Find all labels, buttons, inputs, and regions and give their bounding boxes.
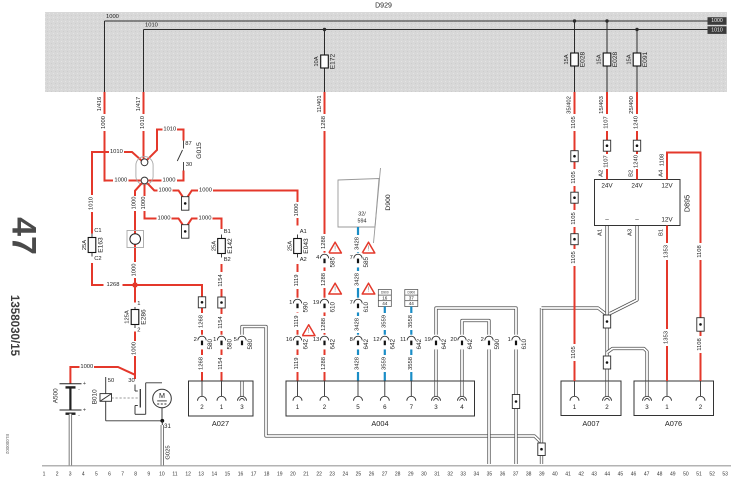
svg-text:C1: C1 — [94, 228, 101, 234]
svg-text:18: 18 — [264, 471, 270, 477]
connector 1108 — [697, 318, 704, 332]
wire branch to A076 pin3 — [607, 349, 647, 382]
fuse E043 25A — [287, 229, 310, 263]
svg-text:13: 13 — [198, 471, 204, 477]
svg-text:16: 16 — [382, 296, 388, 301]
pin A004-7 — [407, 381, 416, 411]
relay contact 30 — [128, 375, 162, 415]
svg-text:3428: 3428 — [355, 273, 361, 286]
svg-text:B010: B010 — [92, 389, 99, 404]
wire 1000 to fuse E142 — [141, 185, 222, 230]
wire drop to fuse E028b — [605, 19, 608, 92]
svg-text:1000: 1000 — [163, 177, 176, 183]
battery ground wire — [69, 414, 72, 466]
inline connector 580 pin5 — [234, 335, 254, 350]
svg-text:D900: D900 — [381, 290, 389, 294]
svg-text:+: + — [83, 407, 86, 413]
svg-text:D900: D900 — [385, 194, 392, 210]
svg-text:3428: 3428 — [355, 237, 361, 250]
svg-text:7: 7 — [350, 255, 353, 261]
wire 1010 drop 1/417 — [136, 92, 146, 159]
svg-text:53: 53 — [722, 471, 728, 477]
svg-text:610: 610 — [329, 301, 336, 312]
svg-text:44: 44 — [605, 471, 611, 477]
ground wire G025 — [162, 421, 171, 466]
svg-text:25A: 25A — [287, 241, 293, 251]
svg-text:B1: B1 — [224, 229, 231, 235]
wire 1108 D895 A4 to A076 pin2 — [659, 153, 704, 382]
pin A076-2 — [696, 381, 705, 411]
connector on 1154 — [218, 297, 225, 308]
warning triangle 642 ref — [302, 325, 315, 336]
coordinate numbers 1-53 — [43, 471, 729, 477]
svg-text:37: 37 — [409, 296, 415, 301]
svg-text:37: 37 — [513, 471, 519, 477]
fuse E163 25A — [82, 228, 105, 262]
svg-text:3: 3 — [69, 471, 72, 477]
svg-text:1288: 1288 — [321, 236, 327, 249]
svg-text:29: 29 — [408, 471, 414, 477]
svg-text:1107: 1107 — [604, 116, 610, 128]
svg-text:1119: 1119 — [294, 357, 300, 369]
svg-text:30: 30 — [128, 378, 134, 384]
svg-text:35/402: 35/402 — [566, 96, 572, 114]
svg-text:17: 17 — [251, 471, 257, 477]
svg-text:580: 580 — [226, 338, 233, 349]
svg-text:31: 31 — [434, 471, 440, 477]
svg-text:E091: E091 — [642, 51, 649, 67]
svg-text:A004: A004 — [371, 419, 388, 428]
svg-text:1: 1 — [220, 404, 224, 411]
inline connector 642 pin8 — [350, 335, 370, 350]
svg-text:1/416: 1/416 — [97, 97, 103, 112]
svg-text:A2: A2 — [300, 257, 307, 263]
svg-text:!: ! — [334, 286, 336, 293]
code EL000002 — [5, 434, 10, 455]
svg-text:41: 41 — [565, 471, 571, 477]
svg-text:2: 2 — [699, 404, 703, 411]
svg-text:22: 22 — [316, 471, 322, 477]
svg-text:1108: 1108 — [660, 154, 666, 166]
svg-text:1105: 1105 — [571, 346, 577, 358]
svg-text:D900: D900 — [407, 290, 415, 294]
connector D895 output a — [603, 315, 610, 328]
svg-text:-: - — [78, 387, 80, 393]
svg-text:1/417: 1/417 — [136, 97, 142, 112]
svg-text:125A: 125A — [124, 310, 130, 324]
svg-text:1288: 1288 — [321, 357, 327, 370]
fuse E172 10A — [314, 53, 337, 69]
svg-text:24V: 24V — [631, 183, 643, 190]
relay B010 — [92, 377, 140, 421]
svg-text:6: 6 — [108, 471, 111, 477]
wire 1000 to fuse E043 — [147, 183, 300, 225]
svg-text:13: 13 — [313, 337, 319, 343]
svg-text:25A: 25A — [82, 240, 88, 250]
svg-text:25: 25 — [356, 471, 362, 477]
label D895 A3 — [628, 229, 634, 236]
svg-text:!: ! — [368, 286, 370, 293]
svg-text:1010: 1010 — [140, 116, 146, 129]
svg-text:4: 4 — [316, 255, 320, 261]
wire 3428 D900 to A004 pin5 — [355, 227, 361, 381]
svg-text:A2: A2 — [599, 170, 605, 177]
pin A076-3 — [643, 381, 652, 411]
svg-text:32/: 32/ — [358, 212, 366, 218]
inline connector 580 pin1 — [213, 335, 233, 350]
svg-text:610: 610 — [363, 301, 370, 312]
wire 1105 E028 to A007 pin1 — [566, 92, 577, 381]
inline connector 642 pin12 — [373, 335, 396, 350]
svg-text:12V: 12V — [661, 183, 673, 190]
svg-text:1000: 1000 — [711, 18, 723, 24]
svg-text:49: 49 — [670, 471, 676, 477]
svg-text:C2: C2 — [94, 256, 101, 262]
fuse E286 125A — [124, 301, 147, 334]
svg-text:5: 5 — [95, 471, 98, 477]
svg-text:24: 24 — [343, 471, 349, 477]
svg-text:1268: 1268 — [199, 315, 205, 328]
svg-text:3559: 3559 — [381, 357, 387, 370]
svg-text:11: 11 — [172, 471, 177, 477]
inline connector 585 pin7 — [350, 253, 370, 268]
svg-text:40: 40 — [552, 471, 558, 477]
svg-text:–: – — [635, 216, 639, 223]
svg-text:1119: 1119 — [294, 274, 300, 286]
svg-text:16: 16 — [286, 337, 292, 343]
svg-text:36: 36 — [500, 471, 506, 477]
inline connector 610 pin19 — [313, 298, 336, 313]
svg-text:15A: 15A — [627, 54, 633, 64]
svg-text:1154: 1154 — [218, 273, 224, 286]
svg-text:1000: 1000 — [294, 204, 300, 217]
svg-text:87: 87 — [185, 141, 191, 147]
svg-text:33: 33 — [460, 471, 466, 477]
svg-text:1105: 1105 — [571, 116, 577, 128]
svg-text:-: - — [78, 413, 80, 419]
bottom coordinate rail — [42, 465, 731, 467]
svg-text:3558: 3558 — [408, 315, 414, 328]
pin A004-5 — [354, 381, 363, 411]
svg-text:1353: 1353 — [664, 245, 670, 258]
svg-text:1: 1 — [213, 337, 216, 343]
svg-text:3428: 3428 — [355, 357, 361, 370]
svg-text:32: 32 — [447, 471, 453, 477]
wire 1240 E091 to D895 B2 — [629, 92, 640, 180]
warning triangle 610 ref (1288) — [329, 283, 342, 294]
svg-text:B2: B2 — [629, 170, 635, 177]
svg-text:43: 43 — [591, 471, 597, 477]
svg-text:A027: A027 — [212, 419, 229, 428]
svg-text:1240: 1240 — [634, 155, 640, 168]
svg-text:1107: 1107 — [604, 155, 610, 167]
svg-text:27: 27 — [382, 471, 388, 477]
svg-text:50: 50 — [108, 378, 114, 384]
svg-text:1010: 1010 — [711, 27, 723, 33]
svg-text:2: 2 — [194, 337, 197, 343]
svg-text:1108: 1108 — [697, 338, 703, 350]
svg-text:19: 19 — [424, 337, 430, 343]
inline connector 642 pin20 — [450, 335, 473, 350]
svg-text:47: 47 — [5, 217, 43, 255]
svg-text:1: 1 — [43, 471, 46, 477]
svg-text:9: 9 — [147, 471, 150, 477]
component D895 voltage converter — [595, 180, 692, 226]
svg-text:A3: A3 — [628, 229, 634, 236]
wire 642 to A004 pin4 — [460, 349, 463, 381]
junction 1268/1000 — [133, 283, 137, 287]
svg-text:3428: 3428 — [355, 318, 361, 331]
connector on 1268 — [198, 297, 205, 308]
svg-text:30: 30 — [421, 471, 427, 477]
svg-text:A007: A007 — [582, 419, 599, 428]
svg-text:D895: D895 — [683, 195, 692, 212]
component A007 — [561, 381, 621, 428]
svg-text:1288: 1288 — [321, 318, 327, 331]
wire 1000 to eyelet and fuse E286 — [132, 183, 142, 302]
wire junction to A007 pin2 — [605, 328, 608, 381]
svg-text:46: 46 — [631, 471, 637, 477]
svg-text:1000: 1000 — [132, 264, 138, 277]
battery A500 — [53, 364, 136, 419]
svg-text:1010: 1010 — [89, 197, 95, 210]
wire connector 642 inner loop — [462, 321, 489, 338]
inline connector 642 pin13 — [313, 335, 336, 350]
svg-text:15: 15 — [225, 471, 231, 477]
svg-text:2: 2 — [605, 404, 609, 411]
wire bundle riser to D895 junction — [542, 308, 607, 464]
svg-text:14: 14 — [212, 471, 218, 477]
pin A027-1 — [217, 381, 226, 411]
svg-text:8: 8 — [134, 471, 137, 477]
svg-text:7: 7 — [350, 300, 353, 306]
svg-text:1268: 1268 — [107, 282, 120, 288]
svg-text:A1: A1 — [300, 229, 307, 235]
svg-text:16: 16 — [238, 471, 244, 477]
svg-text:38: 38 — [526, 471, 532, 477]
svg-text:48: 48 — [657, 471, 663, 477]
wire drop 1/417 — [143, 30, 145, 93]
svg-text:1268: 1268 — [199, 357, 205, 370]
svg-text:1010: 1010 — [163, 126, 176, 132]
svg-text:1000: 1000 — [106, 14, 119, 20]
wire D895 A3 down — [610, 226, 637, 314]
connector 1105 c — [571, 234, 578, 245]
svg-text:1288: 1288 — [321, 273, 327, 286]
svg-text:B1: B1 — [659, 229, 665, 236]
svg-text:580: 580 — [247, 338, 254, 349]
svg-text:5: 5 — [234, 337, 237, 343]
wire 1288 E172 to A004 pin2 — [317, 92, 327, 381]
svg-text:3: 3 — [240, 404, 244, 411]
inline connector 590 pin2 — [481, 335, 501, 350]
splice circle upper (1010) — [141, 159, 148, 166]
wire 1107 E028 to D895 A2 — [599, 92, 610, 180]
svg-text:EL000002: EL000002 — [5, 434, 10, 455]
wire 3559 to A004 pin6 — [381, 307, 387, 382]
fuse E091 15A — [627, 51, 650, 67]
svg-text:590: 590 — [302, 301, 309, 312]
wire 1154 to A027 pin1 — [218, 264, 224, 381]
inline connector 610 pin1 — [508, 335, 528, 350]
pin A027-2 — [198, 381, 207, 411]
svg-text:1119: 1119 — [294, 315, 300, 327]
svg-text:47: 47 — [644, 471, 650, 477]
svg-text:1240: 1240 — [634, 116, 640, 129]
eyelet terminal — [127, 231, 144, 248]
svg-text:!: ! — [308, 328, 310, 335]
warning triangle 610 ref (3428) — [362, 283, 375, 294]
svg-text:D929: D929 — [375, 3, 392, 10]
wire 610 down to edge — [514, 349, 517, 464]
svg-text:1105: 1105 — [571, 251, 577, 263]
svg-text:642: 642 — [363, 338, 370, 349]
wire drop to fuse E028a — [573, 19, 576, 92]
svg-text:G015: G015 — [196, 142, 203, 159]
wire 642 to A004 pin3 — [434, 349, 437, 381]
svg-text:15/403: 15/403 — [599, 96, 605, 114]
svg-text:E028: E028 — [612, 51, 619, 67]
document number 1358030/15 — [8, 295, 21, 357]
svg-text:39: 39 — [539, 471, 545, 477]
svg-text:1353: 1353 — [664, 331, 670, 344]
svg-text:1358030/15: 1358030/15 — [8, 295, 21, 357]
svg-text:1: 1 — [289, 300, 292, 306]
svg-text:52: 52 — [709, 471, 715, 477]
svg-text:2: 2 — [323, 404, 327, 411]
svg-text:4: 4 — [460, 404, 464, 411]
svg-text:19: 19 — [277, 471, 283, 477]
inline connector 642 pin19 — [424, 335, 447, 350]
svg-text:35: 35 — [487, 471, 493, 477]
connector 1105 a — [571, 151, 578, 162]
svg-text:642: 642 — [441, 338, 448, 349]
svg-text:–: – — [605, 216, 609, 223]
pin A027-3 — [238, 381, 247, 411]
wire 1000 drop 1/416 — [97, 92, 141, 183]
connector 1240 — [633, 140, 640, 151]
svg-text:1000: 1000 — [80, 364, 93, 370]
connector on 610 wire — [512, 395, 519, 409]
pin A004-3 — [432, 381, 441, 411]
inline connector 590 pin1 — [289, 298, 309, 313]
svg-text:585: 585 — [329, 256, 336, 267]
svg-text:1000: 1000 — [101, 116, 107, 129]
wire drop 1/416 — [104, 21, 106, 92]
svg-text:2: 2 — [56, 471, 59, 477]
svg-text:1000: 1000 — [132, 342, 138, 355]
wire 1010 busbar — [144, 23, 709, 30]
wire A027 pin3 to bundle (connector 580 leg) — [242, 327, 542, 443]
svg-text:610: 610 — [521, 338, 528, 349]
svg-text:1154: 1154 — [218, 356, 224, 369]
label D895 A1 — [598, 229, 604, 236]
svg-text:1010: 1010 — [110, 149, 123, 155]
motor M — [153, 389, 172, 421]
wire 1010 branch to E163 — [89, 149, 142, 234]
svg-text:642: 642 — [302, 338, 309, 349]
svg-text:12V: 12V — [661, 216, 673, 223]
fuse E028 15A (right) — [597, 51, 620, 67]
svg-text:642: 642 — [390, 338, 397, 349]
svg-text:1000: 1000 — [114, 177, 127, 183]
pin A004-1 — [293, 381, 302, 411]
svg-text:6: 6 — [383, 404, 387, 411]
wire 1353 D895 B1 to A076 pin1 — [659, 226, 670, 382]
svg-text:15A: 15A — [564, 54, 570, 64]
svg-text:44: 44 — [382, 301, 388, 306]
svg-text:21: 21 — [303, 471, 309, 477]
svg-text:42: 42 — [578, 471, 584, 477]
svg-text:1154: 1154 — [218, 315, 224, 328]
svg-text:1: 1 — [508, 337, 511, 343]
svg-text:4: 4 — [82, 471, 85, 477]
svg-text:1000: 1000 — [159, 187, 172, 193]
svg-text:E142: E142 — [227, 238, 234, 254]
wire 1000 E286 to relay 30 — [132, 332, 138, 379]
svg-text:5: 5 — [356, 404, 360, 411]
svg-text:26: 26 — [369, 471, 375, 477]
svg-text:594: 594 — [358, 219, 367, 225]
wire 590 down to edge — [487, 349, 490, 464]
warning triangle 585 ref (1288) — [329, 242, 342, 253]
svg-text:1000: 1000 — [132, 197, 138, 210]
svg-text:31: 31 — [164, 424, 171, 430]
net label 1010 — [708, 26, 727, 34]
inline connector 642 pin11 — [400, 335, 423, 350]
pin A004-2 — [320, 381, 329, 411]
connector on 1000 (lower) — [182, 225, 189, 239]
svg-text:+: + — [83, 381, 86, 387]
svg-text:11/401: 11/401 — [317, 95, 323, 112]
svg-text:1010: 1010 — [145, 23, 158, 29]
svg-text:10A: 10A — [314, 56, 320, 66]
svg-text:34: 34 — [474, 471, 480, 477]
svg-text:50: 50 — [683, 471, 689, 477]
svg-text:8: 8 — [350, 337, 353, 343]
component A027 — [189, 381, 254, 428]
svg-text:15A: 15A — [597, 54, 603, 64]
svg-text:1288: 1288 — [321, 116, 327, 129]
svg-text:642: 642 — [467, 338, 474, 349]
node 31 junction — [106, 419, 172, 430]
connector on bundle riser — [538, 443, 545, 456]
connector 1105 b — [571, 192, 578, 203]
control unit D900 — [338, 168, 392, 243]
inline connector 580 pin2 — [194, 335, 214, 350]
svg-text:!: ! — [368, 245, 370, 252]
svg-text:24V: 24V — [601, 183, 613, 190]
svg-text:M: M — [159, 391, 165, 400]
net label 1000 — [708, 17, 727, 25]
svg-text:1105: 1105 — [571, 212, 577, 224]
splice terminal block — [136, 157, 153, 185]
svg-text:1000: 1000 — [158, 215, 171, 221]
svg-text:590: 590 — [494, 338, 501, 349]
svg-text:1000: 1000 — [199, 187, 212, 193]
component A076 — [634, 381, 714, 428]
inline connector 642 pin16 — [286, 335, 309, 350]
svg-text:51: 51 — [696, 471, 702, 477]
wire 1000 from G015 terminal 30 — [148, 171, 183, 184]
svg-text:1108: 1108 — [697, 245, 703, 257]
svg-text:3: 3 — [645, 404, 649, 411]
wire drop to fuse E172 — [323, 28, 326, 92]
svg-text:E163: E163 — [97, 237, 104, 253]
splice circle lower (1000) — [141, 177, 148, 184]
wire 1119 to A004 pin1 — [294, 264, 300, 381]
svg-text:7: 7 — [410, 404, 414, 411]
